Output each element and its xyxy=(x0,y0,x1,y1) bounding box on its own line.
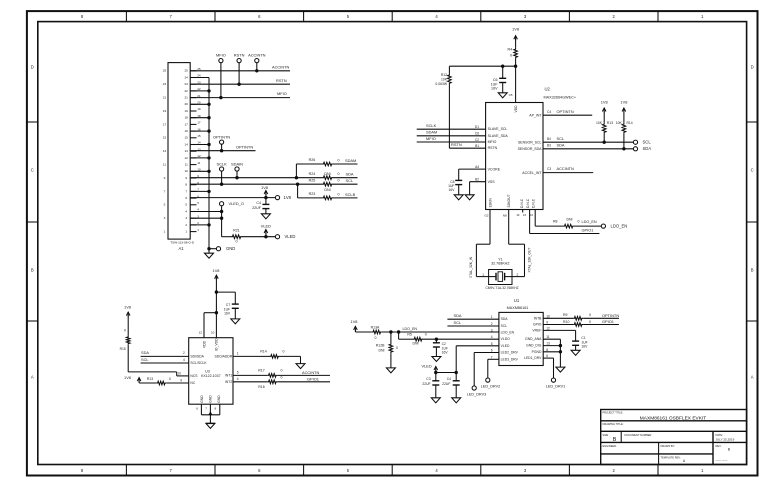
ground at C3 xyxy=(431,398,440,403)
svg-text:VLED: VLED xyxy=(422,364,432,369)
node SDA connector circle xyxy=(633,146,651,151)
svg-text:5: 5 xyxy=(237,371,239,375)
svg-text:RSTN: RSTN xyxy=(488,146,498,150)
svg-text:GND: GND xyxy=(217,395,221,403)
svg-text:SCLK: SCLK xyxy=(216,161,227,166)
U2 bottom DNC pins xyxy=(516,198,535,217)
svg-text:5: 5 xyxy=(197,201,199,205)
svg-text:1: 1 xyxy=(164,230,166,234)
svg-text:TSW-113-08-G-D: TSW-113-08-G-D xyxy=(170,240,195,244)
svg-text:0: 0 xyxy=(589,320,591,324)
svg-text:TEMPLATE REV:: TEMPLATE REV: xyxy=(661,456,681,460)
test point SCLK xyxy=(216,161,227,184)
svg-text:D: D xyxy=(31,65,34,70)
ground at C6 xyxy=(498,93,507,98)
capacitor C6 1UF 16V xyxy=(491,66,507,93)
power VLED at R21 xyxy=(261,224,271,237)
svg-text:GPIO1: GPIO1 xyxy=(307,376,319,381)
svg-text:NCS: NCS xyxy=(190,374,198,378)
svg-text:VDD: VDD xyxy=(202,340,206,348)
svg-text:GND: GND xyxy=(226,246,235,251)
svg-text:VLED: VLED xyxy=(285,234,296,239)
svg-text:0: 0 xyxy=(425,332,427,336)
svg-text:B4: B4 xyxy=(547,137,551,141)
test point 1V8 xyxy=(275,195,291,200)
svg-text:MFIO: MFIO xyxy=(277,91,287,96)
svg-text:9: 9 xyxy=(164,176,166,180)
svg-text:23: 23 xyxy=(184,82,188,86)
wire OPTINTN from U2 xyxy=(529,109,592,118)
svg-text:0: 0 xyxy=(169,377,171,381)
svg-text:1V8: 1V8 xyxy=(124,305,131,310)
ground at C7 xyxy=(231,319,240,324)
svg-text:LED3_DRV: LED3_DRV xyxy=(501,357,519,361)
wire ACCEL_INT to ACCINTN xyxy=(522,166,593,175)
svg-text:15: 15 xyxy=(197,134,201,138)
resistor R14 10K xyxy=(616,121,633,151)
wire VSS pin xyxy=(470,182,486,195)
svg-text:GPIO: GPIO xyxy=(533,323,542,327)
svg-text:U1: U1 xyxy=(514,298,520,303)
power 1V8 at U3 ADDR xyxy=(124,375,141,383)
ground at C2 xyxy=(432,357,441,362)
svg-text:OPTINTN: OPTINTN xyxy=(602,313,619,318)
svg-text:KX122-1037: KX122-1037 xyxy=(201,374,221,378)
svg-text:LED_DRV2: LED_DRV2 xyxy=(481,384,500,388)
svg-text:C2: C2 xyxy=(442,342,446,346)
svg-text:C4: C4 xyxy=(547,110,551,114)
svg-text:CM9V-T1A-32.768KHZ: CM9V-T1A-32.768KHZ xyxy=(485,286,518,290)
ground at connector xyxy=(205,249,214,259)
svg-text:C6: C6 xyxy=(475,132,479,136)
capacitor C4 22UF at connector xyxy=(252,198,269,214)
svg-text:19: 19 xyxy=(197,107,201,111)
resistor R9 0 to OPTINTN xyxy=(563,313,619,320)
svg-text:SDA: SDA xyxy=(501,317,509,321)
svg-text:SCL: SCL xyxy=(454,320,462,325)
svg-text:R15: R15 xyxy=(120,347,126,351)
wire SCLK from connector xyxy=(190,183,297,186)
svg-text:R4: R4 xyxy=(508,48,513,52)
svg-text:7: 7 xyxy=(185,189,187,193)
resistor R16 0 to GPIO1 xyxy=(258,375,330,388)
svg-text:MAXM86161 OSBFLEX EVKIT: MAXM86161 OSBFLEX EVKIT xyxy=(640,415,706,421)
svg-text:9: 9 xyxy=(185,176,187,180)
svg-text:GND_ANA: GND_ANA xyxy=(525,337,542,341)
svg-text:B: B xyxy=(751,268,754,273)
svg-text:PGND: PGND xyxy=(532,350,542,354)
connector A1 pin stubs and pin numbers xyxy=(163,67,201,234)
svg-text:6: 6 xyxy=(491,349,493,353)
wire SDAIN from connector xyxy=(190,176,296,179)
svg-text:0: 0 xyxy=(396,346,398,350)
resistor R10 0 to GPIO1 xyxy=(563,319,619,326)
wire RSTN label at U2 xyxy=(451,142,462,147)
svg-text:C3: C3 xyxy=(547,167,551,171)
svg-text:R5: R5 xyxy=(407,332,412,336)
svg-text:0: 0 xyxy=(337,172,339,176)
svg-text:12: 12 xyxy=(546,326,550,330)
op-amp U1 MAXM86161 body xyxy=(499,298,543,366)
svg-text:10: 10 xyxy=(177,372,181,376)
svg-text:DNI: DNI xyxy=(324,172,330,176)
svg-text:0.063W: 0.063W xyxy=(435,82,447,86)
svg-text:R13A: R13A xyxy=(371,325,380,329)
resistor R25 0 net SCL xyxy=(298,178,358,192)
svg-text:0: 0 xyxy=(589,313,591,317)
svg-text:DNI: DNI xyxy=(412,341,418,345)
svg-text:1V8: 1V8 xyxy=(284,195,292,200)
wire SDO to R14A xyxy=(214,352,269,359)
svg-text:ENGINEER:: ENGINEER: xyxy=(603,444,618,448)
svg-text:LDO_EN: LDO_EN xyxy=(582,220,597,224)
svg-text:GPIO1: GPIO1 xyxy=(602,319,614,324)
svg-text:2: 2 xyxy=(183,351,185,355)
svg-text:MFIO: MFIO xyxy=(488,140,497,144)
svg-text:16V: 16V xyxy=(442,350,449,354)
wire INT1 from U3 xyxy=(225,371,267,378)
svg-text:1V8: 1V8 xyxy=(124,375,131,380)
test point LDO_EN xyxy=(601,224,627,229)
svg-text:3: 3 xyxy=(164,216,166,220)
wire SCL to U1 xyxy=(447,320,499,326)
svg-text:6: 6 xyxy=(546,354,548,358)
svg-text:SCLB: SCLB xyxy=(345,192,356,197)
svg-text:RSTN: RSTN xyxy=(451,142,462,147)
svg-text:DATE:: DATE: xyxy=(716,433,724,437)
svg-text:19: 19 xyxy=(163,109,167,113)
power 1V8 at U3 top xyxy=(213,268,220,338)
svg-text:SENSOR_SDA: SENSOR_SDA xyxy=(518,147,543,151)
svg-text:SDAIN: SDAIN xyxy=(231,161,243,166)
svg-text:VLED_O: VLED_O xyxy=(229,201,244,206)
svg-text:R10: R10 xyxy=(563,320,569,324)
svg-text:VSS: VSS xyxy=(488,180,496,184)
wire LED2_DRV to test point xyxy=(474,353,499,386)
svg-text:4: 4 xyxy=(185,209,187,213)
test point VLED_O xyxy=(220,201,244,237)
svg-text:9: 9 xyxy=(180,379,182,383)
svg-text:G2: G2 xyxy=(484,214,488,218)
svg-text:17: 17 xyxy=(197,121,201,125)
op-amp U2 MAX32664 body xyxy=(486,87,577,210)
svg-text:3: 3 xyxy=(185,216,187,220)
svg-text:20: 20 xyxy=(184,102,188,106)
svg-text:A4: A4 xyxy=(475,165,479,169)
svg-text:VLED: VLED xyxy=(501,344,510,348)
svg-text:R8: R8 xyxy=(553,219,558,223)
wire ADDR to U3 xyxy=(166,379,196,386)
svg-text:C4: C4 xyxy=(256,201,261,205)
svg-text:0: 0 xyxy=(578,220,580,224)
wire LED3_DRV to test point xyxy=(488,359,499,378)
resistor R12 10K 0.063W xyxy=(435,66,485,148)
crystal Y1 32.768KHZ xyxy=(482,257,518,290)
U2 left pin names and numbers xyxy=(475,125,509,184)
svg-text:GPIO1: GPIO1 xyxy=(582,227,594,232)
svg-text:5: 5 xyxy=(491,342,493,346)
svg-text:MAX32664GWEC+: MAX32664GWEC+ xyxy=(544,96,577,100)
svg-text:5: 5 xyxy=(164,203,166,207)
svg-text:PROJECT TITLE:: PROJECT TITLE: xyxy=(603,411,624,415)
svg-text:C6: C6 xyxy=(493,78,498,82)
svg-text:16V: 16V xyxy=(449,188,456,192)
svg-text:DNI: DNI xyxy=(567,217,573,221)
U1 left pin names and numbers xyxy=(491,315,519,361)
svg-text:ACCINTN: ACCINTN xyxy=(302,370,320,375)
svg-text:U2: U2 xyxy=(545,87,551,92)
svg-text:LDO_EN: LDO_EN xyxy=(501,330,515,334)
svg-text:22: 22 xyxy=(184,89,188,93)
wire SDA branch vertical xyxy=(295,164,298,179)
svg-text:7: 7 xyxy=(205,407,207,411)
svg-text:10: 10 xyxy=(184,169,188,173)
svg-text:DOCUMENT NUMBER: DOCUMENT NUMBER xyxy=(625,433,652,437)
svg-text:1: 1 xyxy=(237,352,239,356)
node GND test point xyxy=(207,246,235,251)
svg-text:0: 0 xyxy=(124,329,126,333)
U1 right pin names and numbers xyxy=(524,314,550,360)
wire SDA to U1 xyxy=(447,313,499,319)
svg-text:J3: J3 xyxy=(523,213,527,217)
svg-text:SDA: SDA xyxy=(346,172,354,177)
wire to C7 xyxy=(216,292,235,304)
svg-text:10K: 10K xyxy=(596,121,603,125)
svg-text:D1: D1 xyxy=(475,125,479,129)
svg-text:DNI: DNI xyxy=(378,348,384,352)
svg-text:RSTN: RSTN xyxy=(276,78,287,83)
ground at R14A xyxy=(296,364,305,369)
test point RSTN xyxy=(234,53,245,85)
svg-text:SCL: SCL xyxy=(557,136,565,141)
svg-text:VLED: VLED xyxy=(261,224,271,229)
svg-text:0: 0 xyxy=(283,349,285,353)
svg-text:B: B xyxy=(31,268,34,273)
svg-text:17: 17 xyxy=(163,122,167,126)
svg-text:MFIO: MFIO xyxy=(216,53,226,58)
svg-text:1V8: 1V8 xyxy=(213,268,220,273)
svg-text:GND_DIG: GND_DIG xyxy=(526,344,542,348)
svg-text:VLDO: VLDO xyxy=(501,337,511,341)
svg-text:R14: R14 xyxy=(260,349,266,353)
svg-text:22UF: 22UF xyxy=(442,382,450,386)
svg-text:INT2: INT2 xyxy=(225,380,232,384)
svg-text:11: 11 xyxy=(197,161,200,165)
svg-text:R17: R17 xyxy=(258,369,264,373)
svg-text:0: 0 xyxy=(337,192,339,196)
test point SDAIN xyxy=(231,161,243,177)
svg-text:11: 11 xyxy=(163,163,166,167)
svg-text:2: 2 xyxy=(517,273,519,277)
svg-text:SLAVE_SDA: SLAVE_SDA xyxy=(488,134,509,138)
test point LED_DRV1 xyxy=(546,378,565,388)
svg-text:1: 1 xyxy=(482,273,484,277)
svg-text:16V: 16V xyxy=(581,345,588,349)
svg-text:0: 0 xyxy=(281,369,283,373)
svg-text:ACCEL_INT: ACCEL_INT xyxy=(522,171,542,175)
svg-text:32KOUT: 32KOUT xyxy=(507,194,511,207)
svg-text:R26: R26 xyxy=(309,158,316,162)
svg-text:21: 21 xyxy=(184,96,188,100)
svg-text:B1: B1 xyxy=(475,144,479,148)
svg-text:—— ——: —— —— xyxy=(716,458,728,462)
svg-text:C1: C1 xyxy=(581,336,585,340)
svg-text:SDI/SDA: SDI/SDA xyxy=(190,355,204,359)
svg-text:SIZE: SIZE xyxy=(603,433,609,437)
svg-text:B3: B3 xyxy=(547,143,551,147)
svg-text:10: 10 xyxy=(546,314,550,318)
transistor U3 KX122-1037 body xyxy=(189,338,233,405)
ground at C4 xyxy=(261,214,270,219)
svg-text:VDD: VDD xyxy=(514,105,518,113)
wire SCLK to U2 xyxy=(417,123,486,129)
svg-text:7: 7 xyxy=(164,189,166,193)
svg-text:11: 11 xyxy=(546,335,550,339)
wire LDO_EN to U1 xyxy=(382,327,499,333)
svg-text:16V: 16V xyxy=(224,312,231,316)
ground at C8 xyxy=(454,195,463,200)
wire NCS to U3 xyxy=(128,345,198,378)
svg-text:R13: R13 xyxy=(607,121,613,125)
svg-text:OPTINTN: OPTINTN xyxy=(213,135,230,140)
ground at R12B xyxy=(386,368,395,373)
svg-text:1: 1 xyxy=(185,230,187,234)
resistor R24 DNI net SDA xyxy=(296,172,357,180)
ground at C4A xyxy=(452,398,461,403)
svg-text:7: 7 xyxy=(491,355,493,359)
svg-text:R16: R16 xyxy=(258,385,264,389)
svg-text:8: 8 xyxy=(546,348,548,352)
power VLED arrow xyxy=(422,364,438,373)
svg-text:22UF: 22UF xyxy=(422,382,430,386)
svg-text:2: 2 xyxy=(185,223,187,227)
svg-text:R23: R23 xyxy=(309,192,316,196)
svg-text:4: 4 xyxy=(491,335,493,339)
resistor R13B 0 at ADDR xyxy=(139,377,171,385)
power 1V8 at R13 pullup xyxy=(601,100,608,123)
svg-text:R13: R13 xyxy=(147,377,153,381)
svg-text:B: B xyxy=(613,437,617,443)
ground at U3 xyxy=(206,423,215,428)
svg-text:19: 19 xyxy=(184,109,188,113)
svg-text:RSTN: RSTN xyxy=(234,53,245,58)
capacitor C7 1UF 16V xyxy=(224,303,239,319)
test point LED_DRV2 xyxy=(481,378,500,388)
svg-text:C5: C5 xyxy=(509,93,513,97)
capacitor C1 1UF 16V xyxy=(572,336,588,350)
svg-text:D.N.C: D.N.C xyxy=(532,198,536,208)
svg-text:SCL: SCL xyxy=(346,178,354,183)
wire SCL branch vertical xyxy=(296,183,299,198)
wire VLED_O pins xyxy=(190,210,223,220)
svg-text:INTB: INTB xyxy=(534,316,542,320)
resistor R13A 0 xyxy=(355,325,381,340)
wire VLED to U1 pin5 xyxy=(434,346,499,374)
svg-text:18: 18 xyxy=(184,116,188,120)
test point MFIO xyxy=(216,53,226,98)
svg-text:SDA: SDA xyxy=(141,350,149,355)
node SCL connector circle xyxy=(633,140,651,145)
svg-text:8: 8 xyxy=(214,407,216,411)
svg-text:13: 13 xyxy=(546,342,550,346)
svg-text:22UF: 22UF xyxy=(252,206,262,210)
wire GPIO1 from U2 bottom xyxy=(530,210,600,234)
wire SENSOR_SDA to SDA terminal xyxy=(518,142,634,151)
svg-text:13: 13 xyxy=(163,149,167,153)
ground at U1 xyxy=(556,367,565,372)
svg-text:SCL: SCL xyxy=(141,357,149,362)
wire XTAL_32K_IN xyxy=(469,198,493,278)
svg-text:6: 6 xyxy=(196,407,198,411)
wire XTAL_32K_OUT xyxy=(503,194,532,276)
wire VCORE pin xyxy=(459,169,486,180)
svg-text:AP_INT: AP_INT xyxy=(529,113,542,117)
resistor R21 0 xyxy=(222,229,242,244)
svg-text:VCORE: VCORE xyxy=(488,167,501,171)
test point OPTINTN xyxy=(213,135,230,151)
svg-text:LDO_EN: LDO_EN xyxy=(611,224,628,229)
svg-text:13: 13 xyxy=(184,149,188,153)
svg-text:INT1: INT1 xyxy=(225,374,232,378)
svg-text:C: C xyxy=(31,168,34,173)
svg-text:10K: 10K xyxy=(441,78,448,82)
svg-text:1V8: 1V8 xyxy=(351,319,358,324)
svg-text:D.N.C: D.N.C xyxy=(526,198,530,208)
svg-text:ACCINTN: ACCINTN xyxy=(557,166,575,171)
svg-text:0: 0 xyxy=(337,158,339,162)
svg-text:1V8: 1V8 xyxy=(512,27,519,32)
svg-text:GND: GND xyxy=(200,395,204,403)
svg-text:JULY 25,2019: JULY 25,2019 xyxy=(716,438,735,442)
svg-text:16V: 16V xyxy=(491,86,498,90)
wire MFIO to U2 xyxy=(417,136,486,142)
svg-text:R12: R12 xyxy=(441,73,447,77)
connector A1 TSW-113-08-G-D xyxy=(168,63,195,251)
wire 1V8 rail at U2 xyxy=(449,59,517,103)
svg-text:D.N.C: D.N.C xyxy=(520,198,524,208)
svg-text:SDO/ADDR: SDO/ADDR xyxy=(214,355,232,359)
svg-text:SDA: SDA xyxy=(557,142,565,147)
wire U3 ground pins xyxy=(196,395,221,424)
svg-text:R9: R9 xyxy=(563,313,568,317)
svg-text:SDA: SDA xyxy=(643,146,652,151)
svg-text:C: C xyxy=(751,168,754,173)
wire GPIO from U1 xyxy=(543,324,573,326)
resistor R23 0 net SCLB xyxy=(298,192,358,200)
ground at VSS xyxy=(465,195,474,200)
svg-text:C7: C7 xyxy=(226,303,230,307)
capacitor C8 1UF 16V xyxy=(448,180,462,195)
svg-text:LED_DRV1: LED_DRV1 xyxy=(546,384,565,388)
resistor R15 0 at NCS xyxy=(120,329,130,351)
svg-text:SDA: SDA xyxy=(454,313,462,318)
svg-text:8: 8 xyxy=(185,183,187,187)
capacitor C3 22UF xyxy=(422,373,439,398)
svg-text:D: D xyxy=(751,65,754,70)
svg-text:LED2_DRV: LED2_DRV xyxy=(501,351,519,355)
power 1V8 at connector xyxy=(261,185,268,198)
svg-text:SCL: SCL xyxy=(501,324,508,328)
svg-text:R21: R21 xyxy=(233,229,240,233)
svg-text:1: 1 xyxy=(491,315,493,319)
svg-text:0: 0 xyxy=(281,375,283,379)
resistor R14A 0 to ground xyxy=(260,349,300,363)
svg-text:11: 11 xyxy=(185,163,188,167)
svg-text:24: 24 xyxy=(184,75,188,79)
svg-text:21: 21 xyxy=(163,96,167,100)
svg-text:2: 2 xyxy=(491,322,493,326)
resistor R8 DNI 0 xyxy=(553,217,597,228)
